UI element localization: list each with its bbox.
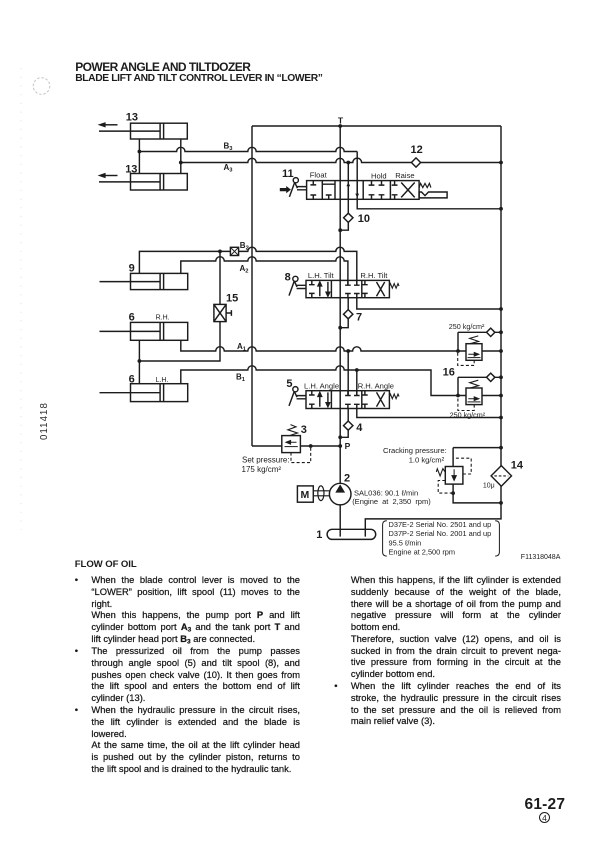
svg-text:Engine at 2,500 rpm: Engine at 2,500 rpm xyxy=(389,547,456,556)
svg-text:15: 15 xyxy=(226,293,238,305)
serial note bracket right xyxy=(495,521,499,556)
valve 11 lower section flow arrows xyxy=(346,181,359,200)
title line 2 xyxy=(75,73,322,84)
tank 1 body xyxy=(327,529,376,539)
svg-text:4: 4 xyxy=(356,422,363,434)
value labels xyxy=(242,322,561,561)
relief valve 16a xyxy=(458,336,482,366)
wire: relief 16b suction tee xyxy=(458,377,501,395)
svg-text:L.H. Angle: L.H. Angle xyxy=(304,381,339,390)
valve 5 center blocked ports xyxy=(345,391,360,409)
lever 11 actuation arrow xyxy=(280,186,291,193)
svg-text:A3: A3 xyxy=(224,163,234,174)
svg-text:8: 8 xyxy=(285,272,291,284)
valve 11 float section symbols xyxy=(310,181,335,200)
svg-text:13: 13 xyxy=(125,164,137,176)
valve 11 hold section blocked ports xyxy=(369,181,385,200)
wire: pump to tank suction xyxy=(339,505,341,537)
svg-text:L.H. Tilt: L.H. Tilt xyxy=(308,271,335,280)
svg-text:D37E-2 Serial No. 2501 and up: D37E-2 Serial No. 2501 and up xyxy=(389,520,492,529)
wire: left drain vertical xyxy=(251,126,253,446)
pump 2 xyxy=(329,483,351,505)
wire B1 drop into angle spool xyxy=(356,370,358,396)
title line 1 xyxy=(75,60,250,74)
svg-text:7: 7 xyxy=(356,312,362,324)
svg-text:250 kg/cm²: 250 kg/cm² xyxy=(449,322,485,331)
svg-text:Raise: Raise xyxy=(395,171,414,180)
check valve 10 xyxy=(344,213,353,222)
port labels xyxy=(224,116,351,451)
svg-text:12: 12 xyxy=(411,144,423,156)
coupling xyxy=(313,486,329,501)
right text column xyxy=(334,575,561,728)
svg-text:14: 14 xyxy=(511,459,524,471)
valve 5 right section symbols xyxy=(362,391,385,409)
svg-text:T: T xyxy=(338,116,344,126)
svg-text:D37P-2 Serial No. 2001 and up: D37P-2 Serial No. 2001 and up xyxy=(389,529,492,538)
svg-text:A2: A2 xyxy=(240,264,249,275)
wire: top tank return line T xyxy=(252,125,501,127)
wire B3 drop through lift spool to drain line xyxy=(357,152,501,209)
wire A1 drop into angle spool xyxy=(347,351,349,396)
wire B2 (tilt head line) xyxy=(139,247,356,285)
side page id 011418 rotated xyxy=(39,402,50,440)
relief 16a check valve xyxy=(487,328,495,336)
wire: filter bypass bottom xyxy=(453,484,501,503)
svg-text:6: 6 xyxy=(129,312,135,324)
tilt cylinder 9 xyxy=(100,273,188,289)
valve 8 left section symbols xyxy=(309,280,330,297)
wire A3 drop through lift spool to check 10 xyxy=(340,163,348,231)
suction valve 12 xyxy=(411,158,420,167)
faint scan edge dots xyxy=(20,68,22,530)
slow return valve 15 xyxy=(214,304,232,321)
check valve 4 xyxy=(344,421,353,430)
relief valve 16b xyxy=(458,380,482,410)
faint stamp circle xyxy=(33,78,50,95)
valve 8 right section symbols xyxy=(362,280,385,297)
relief 16b check valve xyxy=(487,373,495,381)
lift cylinder 13 upper xyxy=(98,122,188,139)
svg-text:Float: Float xyxy=(310,171,328,180)
lift spool valve 11 body xyxy=(307,181,420,200)
check valve 7 xyxy=(344,310,353,319)
wire: angle spool drain to right xyxy=(357,409,501,418)
svg-text:95.5 ℓ/min: 95.5 ℓ/min xyxy=(389,538,422,547)
svg-text:R.H.: R.H. xyxy=(156,314,170,321)
valve 8 control lever xyxy=(289,276,306,295)
wire: lift cylinder parallel verticals xyxy=(139,139,180,174)
angle cylinder 6 L.H. xyxy=(100,384,188,402)
svg-text:L.H.: L.H. xyxy=(156,377,169,384)
drive motor M xyxy=(297,486,313,502)
svg-text:M: M xyxy=(301,489,310,501)
svg-text:9: 9 xyxy=(129,263,135,275)
valve 11 control lever xyxy=(289,178,306,197)
lift cylinder 13 lower xyxy=(98,173,188,190)
svg-text:11: 11 xyxy=(282,168,294,180)
svg-text:P: P xyxy=(345,441,351,451)
wire: check 4 line xyxy=(340,409,348,438)
circled revision 4 xyxy=(535,812,554,823)
svg-text:(Engine at 2,350 rpm): (Engine at 2,350 rpm) xyxy=(352,497,431,506)
wire: center bypass vertical (T to pump P) xyxy=(339,126,341,483)
svg-text:1: 1 xyxy=(316,529,322,541)
svg-text:Cracking pressure:: Cracking pressure: xyxy=(383,446,447,455)
wire A3 (lift bottom line) xyxy=(181,158,501,162)
flow of oil heading xyxy=(75,559,137,570)
valve 11 detent xyxy=(419,192,447,198)
svg-text:A1: A1 xyxy=(237,342,247,353)
wire A2 (tilt bottom line) xyxy=(181,257,348,286)
wire: filter bypass top xyxy=(453,448,501,467)
svg-text:R.H. Angle: R.H. Angle xyxy=(358,381,394,390)
filter bypass relief (cracking) xyxy=(436,458,471,493)
main relief valve 3 xyxy=(282,425,311,463)
wire: tilt spool drain to right xyxy=(357,298,501,309)
wire: angle cylinder link vertical xyxy=(138,340,140,383)
serial note text xyxy=(389,520,492,556)
svg-text:5: 5 xyxy=(286,378,292,390)
svg-text:10μ: 10μ xyxy=(483,483,495,490)
svg-text:B2: B2 xyxy=(240,241,249,252)
valve 5 control lever xyxy=(289,387,306,406)
svg-text:175 kg/cm²: 175 kg/cm² xyxy=(242,465,282,474)
svg-text:B3: B3 xyxy=(224,142,234,153)
svg-text:6: 6 xyxy=(129,374,135,386)
wire B3 (lift head line) xyxy=(139,147,357,151)
angle cylinder 6 R.H. xyxy=(100,322,188,340)
svg-text:3: 3 xyxy=(301,424,307,436)
svg-text:1.0 kg/cm²: 1.0 kg/cm² xyxy=(409,455,445,464)
svg-text:R.H. Tilt: R.H. Tilt xyxy=(360,271,388,280)
valve 5 left section symbols xyxy=(309,391,330,409)
svg-text:10: 10 xyxy=(358,213,370,225)
left text column xyxy=(75,575,300,775)
svg-text:250 kg/cm²: 250 kg/cm² xyxy=(450,411,486,420)
svg-text:F11318048A: F11318048A xyxy=(521,554,561,561)
orifice on B2 xyxy=(230,247,238,255)
valve 8 return spring xyxy=(389,284,399,289)
serial note bracket left xyxy=(383,521,387,556)
wire: check 7 line xyxy=(340,298,348,328)
angle spool valve 5 body xyxy=(306,391,389,409)
wire: valve 15 branch from B2 xyxy=(139,251,220,361)
valve 8 center blocked ports xyxy=(345,280,360,297)
valve 5 return spring xyxy=(389,394,399,399)
wire: relief 16a suction tee xyxy=(458,332,501,351)
svg-text:B1: B1 xyxy=(236,373,246,384)
component number labels xyxy=(125,112,524,542)
tilt spool valve 8 body xyxy=(306,280,389,297)
wire: right drain vertical down to tank xyxy=(365,126,501,537)
svg-text:2: 2 xyxy=(344,472,350,484)
svg-text:16: 16 xyxy=(443,367,455,379)
svg-text:13: 13 xyxy=(126,112,138,124)
valve position labels xyxy=(156,171,415,391)
wire B1 (angle line) xyxy=(181,366,501,396)
svg-text:Hold: Hold xyxy=(371,172,387,181)
wire: P line to main relief xyxy=(252,445,340,447)
valve 11 return spring xyxy=(419,183,431,187)
valve 11 raise section symbols xyxy=(392,181,415,200)
wire A1 (angle line) xyxy=(181,340,501,351)
page number xyxy=(525,796,566,814)
svg-text:Set pressure:: Set pressure: xyxy=(242,455,290,464)
filter 14 xyxy=(491,466,511,487)
